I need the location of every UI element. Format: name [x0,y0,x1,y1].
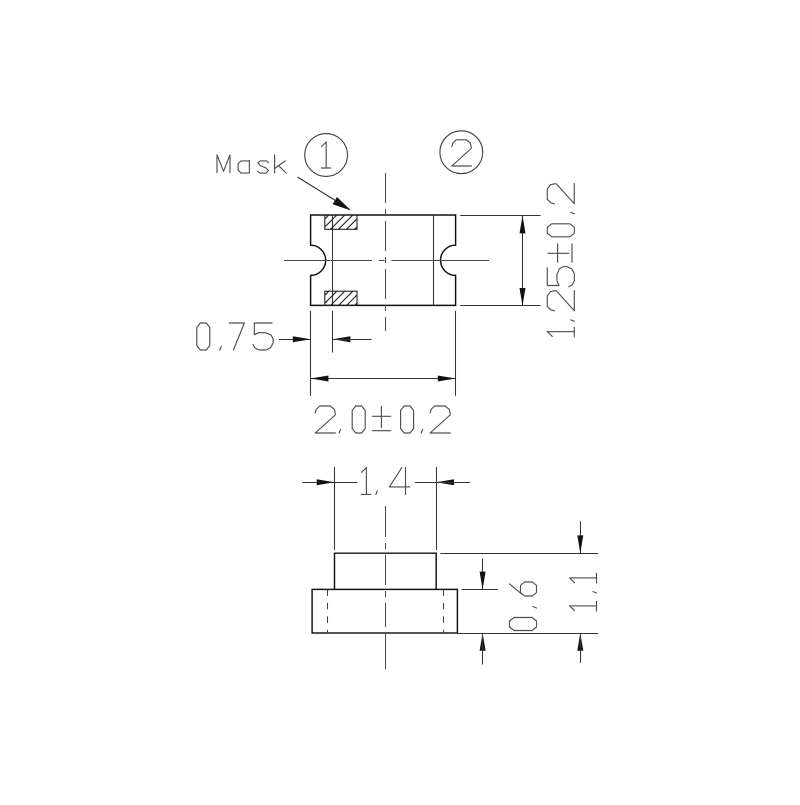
arrow up (1.1 dim) [577,633,583,651]
dimension line 1.4 inner-left stub [335,482,358,484]
tail line right of arrow (0.75 dim) [333,339,372,341]
arrow up (0.6 dim) [480,633,486,651]
pin 1 balloon circle [305,134,348,177]
extension line left (2.0 dim) [310,311,312,396]
extension line step (0.6 dim) [462,589,498,591]
dimension line 1.4 outside-right tail [436,482,470,484]
arrow down (0.6 dim) [480,572,486,590]
extension line right (2.0 dim) [455,311,457,396]
baseline extension (0.6/1.1 dims) [457,633,598,635]
dimension line 0.75 left part [279,339,311,341]
extension line left (1.4 dim) [334,467,336,550]
hidden terminal line right (dashed) [443,589,445,633]
extension line bottom (1.25 dim) [460,305,540,307]
extension line x=332.3 below body [332,311,334,353]
vertical centerline (top view) [385,173,387,331]
dimension text 2.0±0.2 [315,406,450,433]
pin 2 balloon circle [440,131,483,174]
hidden terminal line left (dashed) [327,589,329,633]
dimension text 0.6 (rotated) [510,582,537,631]
side view base plate rectangle [312,589,457,633]
hatched mask pad bottom-left [325,291,357,305]
hatched mask pad top-left [325,215,357,229]
side view upper body rectangle [335,553,437,589]
extension line right (1.4 dim) [436,467,438,550]
arrow down tail (1.1 dim) [580,521,582,553]
vertical centerline (side view) [385,506,387,669]
extension line top (1.1 dim) [440,553,598,555]
arrow right toward left edge (0.75 dim) [293,336,311,342]
inner electrode line right (top view) [433,215,435,305]
arrow down (1.1 dim) [577,535,583,553]
arrow left (1.4 dim right) [436,479,454,485]
arrow right (2.0 dim) [438,376,456,382]
dimension line 1.25 [522,216,524,306]
dimension text 0.75 [197,323,273,350]
pin 1 digit [321,142,330,168]
extension line top (1.25 dim) [460,215,540,217]
arrow right (1.4 dim left) [317,479,335,485]
arrow up tail (0.6 dim) [482,633,484,665]
arrow up (1.25 dim) [520,216,526,234]
arrow down (1.25 dim) [520,288,526,306]
dimension text 1.4 [361,467,410,494]
Mask label text [217,155,286,173]
dimension line 1.4 outside-left tail [302,482,334,484]
horizontal centerline (top view) [284,260,489,262]
inner electrode line left (top view) [332,215,334,305]
arrow down tail (0.6 dim) [482,559,484,590]
dimension line 2.0 [311,378,456,380]
Mask leader line [298,177,350,209]
arrow left toward electrode line (0.75 dim) [333,336,351,342]
Mask leader arrowhead [333,197,351,211]
LED package body outline (top view) with castellated side notches [311,215,456,305]
dimension text 1.1 (rotated) [570,574,597,612]
arrow left (2.0 dim) [311,376,329,382]
dimension text 1.25±0.2 (rotated) [547,184,574,337]
arrow up tail (1.1 dim) [580,633,582,663]
dimension line 1.4 inner-right stub [415,482,436,484]
pin 2 digit [452,140,472,166]
